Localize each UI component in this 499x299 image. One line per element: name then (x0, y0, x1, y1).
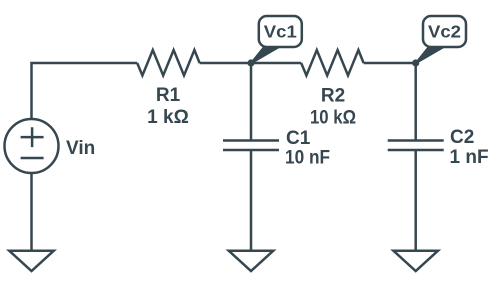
wire source bottom to ground (30, 173, 33, 251)
resistor R1 (137, 50, 199, 76)
callout pointer Vc1 (251, 47, 279, 63)
wire C2 to ground (414, 150, 417, 251)
svg-text:1 nF: 1 nF (450, 147, 489, 168)
svg-text:R2: R2 (321, 86, 345, 107)
resistor R2 (301, 50, 363, 76)
svg-text:10 nF: 10 nF (285, 148, 330, 169)
svg-text:10 kΩ: 10 kΩ (310, 108, 356, 129)
wire top-left: from left vertical up corner to R1 (32, 63, 138, 118)
node Vc1 junction dot (247, 59, 254, 66)
svg-text:Vc1: Vc1 (264, 22, 297, 42)
capacitor C2 (388, 141, 444, 151)
svg-text:Vc2: Vc2 (428, 22, 461, 42)
callout box Vc2 (423, 16, 466, 47)
minus sign inside source (21, 157, 44, 160)
wire R1 to R2 through node Vc1 (200, 62, 302, 65)
svg-text:C2: C2 (450, 127, 474, 148)
wire R2 to node Vc2 (364, 62, 416, 65)
wire C1 to ground (250, 150, 253, 251)
ground under source (9, 251, 54, 271)
ground under C2 (393, 251, 438, 271)
svg-text:R1: R1 (156, 85, 181, 106)
node Vc2 junction dot (412, 59, 419, 66)
callout pointer Vc2 (416, 47, 444, 63)
callout box Vc1 (259, 16, 302, 47)
wire node Vc2 down to C2 (414, 63, 417, 141)
ground under C1 (229, 251, 274, 271)
svg-text:Vin: Vin (66, 138, 95, 159)
plus sign inside source (21, 127, 44, 147)
wire node Vc1 down to C1 (250, 63, 253, 141)
svg-text:1 kΩ: 1 kΩ (147, 107, 189, 128)
voltage source V1 circle (5, 119, 59, 173)
svg-text:C1: C1 (286, 128, 311, 149)
capacitor C1 (223, 141, 279, 151)
